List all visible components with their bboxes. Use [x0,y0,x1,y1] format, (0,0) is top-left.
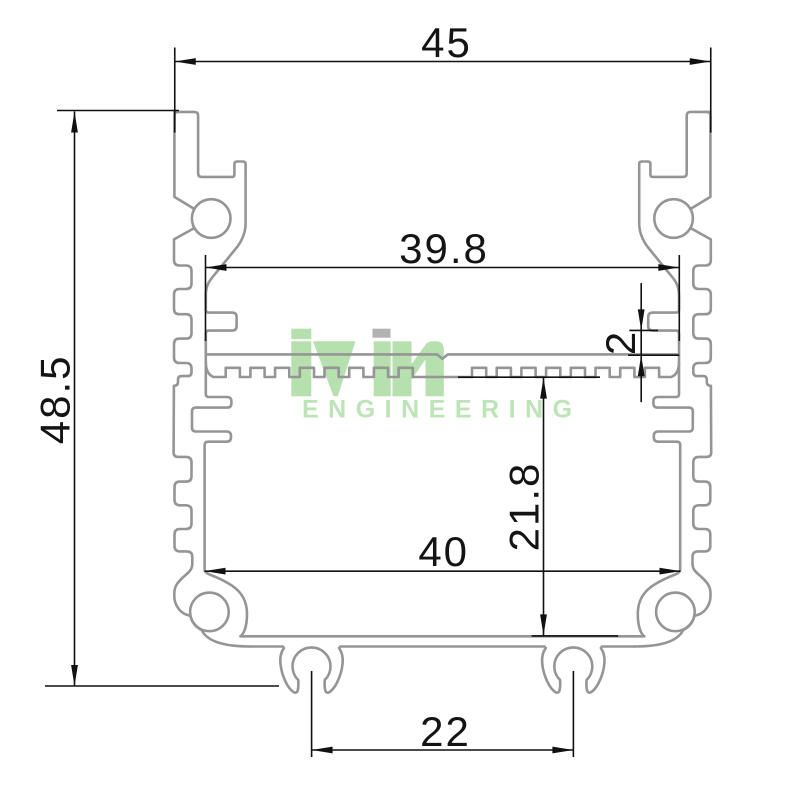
bottom end-cap screw port [190,593,229,632]
svg-text:40: 40 [418,528,469,575]
aluminium profile outline: right half (mirror) [542,112,711,693]
svg-text:ENGINEERING: ENGINEERING [302,396,582,424]
dimension 48.5 (left overall height) [32,111,280,687]
dimension 2 (plate slot height) [597,283,679,402]
LED PCB plate top surface with centre V-groove [207,354,679,358]
bottom mounting clip boss [280,647,342,692]
svg-text:2: 2 [597,330,644,355]
aluminium profile outline: left half [174,112,343,693]
svg-text:45: 45 [421,19,472,66]
dimension 22 (bottom screw boss spacing) [312,671,574,757]
dimension 40 (lower cavity width) [205,528,681,575]
bottom outer face [250,645,283,648]
dimension 39.8 (upper cavity width) [206,225,680,341]
serrated underside of PCB plate [206,362,679,377]
lower cavity floor [241,635,645,638]
svg-text:48.5: 48.5 [32,355,79,445]
cover clip hook, inner cavity wall, PCB support tabs and screw-slot fingers [174,112,247,636]
outer wall with heatsink fins and side screw boss [174,112,250,647]
svg-text:39.8: 39.8 [399,225,489,272]
watermark logo "ivin" [291,329,444,397]
dimension 21.8 (lower cavity height) [458,377,618,636]
svg-text:21.8: 21.8 [501,462,548,552]
dimension 45 (top overall width) [175,19,711,133]
svg-text:22: 22 [420,708,471,755]
top end-cap screw port [192,199,231,238]
